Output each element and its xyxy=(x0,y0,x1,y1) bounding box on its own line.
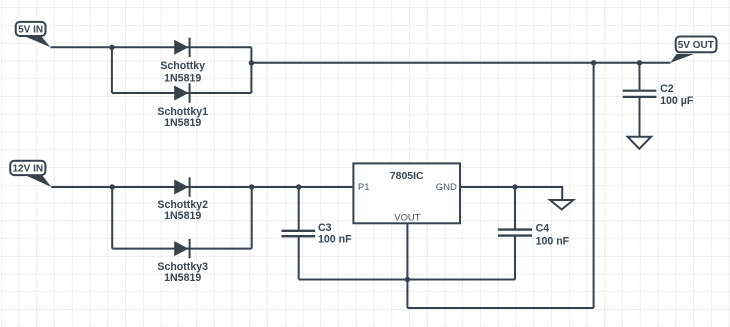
wire 5V IN to node A and upper diode rail xyxy=(51,46,252,48)
svg-text:C4: C4 xyxy=(536,222,550,234)
wire bottom return rail xyxy=(407,307,593,309)
junction dot C3 tap xyxy=(296,184,301,189)
diode Schottky D1 xyxy=(160,38,205,85)
svg-text:100 nF: 100 nF xyxy=(536,235,570,247)
diode Schottky3 D4 xyxy=(157,239,208,284)
ground next to IC GND pin xyxy=(550,200,573,210)
wire lower diode branch xyxy=(112,92,252,94)
diode Schottky2 D3 xyxy=(157,177,208,222)
wire 12V IN rail to IC P1 xyxy=(51,186,352,188)
wire 5V output rail xyxy=(251,62,670,64)
node D junction dot xyxy=(249,184,254,189)
svg-text:5V IN: 5V IN xyxy=(18,25,43,36)
capacitor C3 xyxy=(282,222,353,246)
capacitor C4 xyxy=(498,222,570,247)
junction dot C4 tap xyxy=(512,184,517,189)
svg-text:C2: C2 xyxy=(660,83,674,95)
wire C4 top stub xyxy=(514,187,516,229)
wire C3 top stub xyxy=(298,187,300,230)
junction dot VOUT on mid rail xyxy=(405,277,410,282)
flag 5V IN xyxy=(16,22,51,47)
svg-text:P1: P1 xyxy=(358,182,370,193)
ground below C2 xyxy=(628,137,652,149)
svg-text:Schottky: Schottky xyxy=(160,60,205,72)
svg-text:1N5819: 1N5819 xyxy=(164,210,201,222)
svg-text:1N5819: 1N5819 xyxy=(164,72,201,84)
flag 5V OUT xyxy=(670,37,716,63)
wire VOUT vertical xyxy=(406,224,408,308)
svg-text:100 nF: 100 nF xyxy=(318,234,352,246)
wire GND pin to ground xyxy=(461,187,562,199)
wire C2 bottom stub xyxy=(639,98,641,137)
wire node C vertical xyxy=(111,187,113,249)
wire C4 bottom stub xyxy=(514,236,516,280)
svg-text:Schottky1: Schottky1 xyxy=(157,106,208,118)
svg-text:VOUT: VOUT xyxy=(394,213,421,224)
node B junction dot xyxy=(249,60,254,65)
svg-text:5V OUT: 5V OUT xyxy=(678,40,714,51)
svg-text:7805IC: 7805IC xyxy=(390,170,424,182)
node C junction dot xyxy=(110,184,115,189)
wire node B vertical xyxy=(250,47,252,93)
wire node D vertical xyxy=(251,187,253,249)
svg-text:Schottky3: Schottky3 xyxy=(157,261,208,273)
svg-text:1N5819: 1N5819 xyxy=(164,117,201,129)
diode Schottky1 D2 xyxy=(157,83,208,129)
flag 12V IN xyxy=(10,161,51,187)
capacitor C2 xyxy=(623,83,694,107)
wire right feedback vertical xyxy=(593,63,595,308)
node A junction dot xyxy=(109,45,114,50)
svg-text:Schottky2: Schottky2 xyxy=(157,199,208,211)
wire C2 top stub xyxy=(639,63,641,90)
junction dot feedback/output xyxy=(591,60,596,65)
svg-text:GND: GND xyxy=(436,182,457,193)
op-amp U1 7805IC box xyxy=(353,163,460,223)
svg-text:12V IN: 12V IN xyxy=(13,164,44,175)
wire lower diode branch 2 xyxy=(112,248,252,250)
svg-text:1N5819: 1N5819 xyxy=(164,272,201,284)
svg-text:C3: C3 xyxy=(318,222,332,234)
wire bottom mid rail C3 to C4 xyxy=(299,279,515,281)
wire node A vertical xyxy=(111,47,113,93)
svg-text:100 µF: 100 µF xyxy=(660,95,694,107)
junction dot C2 tap xyxy=(637,60,642,65)
wire C3 bottom stub xyxy=(298,237,300,280)
